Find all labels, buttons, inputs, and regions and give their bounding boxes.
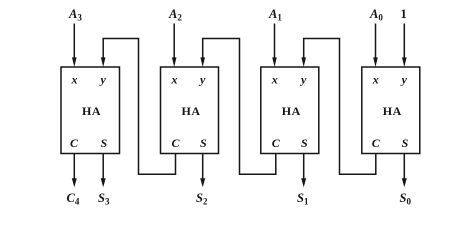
svg-text:A1: A1 bbox=[268, 7, 282, 23]
svg-text:C: C bbox=[70, 136, 79, 150]
svg-text:HA: HA bbox=[82, 104, 101, 118]
wire A0 input bbox=[375, 24, 377, 61]
arrowhead carry into HA2.y bbox=[200, 57, 205, 67]
arrowhead S0 output bbox=[402, 178, 407, 187]
svg-text:S2: S2 bbox=[196, 191, 208, 207]
svg-text:A3: A3 bbox=[68, 7, 82, 23]
half-adder HA2 box bbox=[161, 67, 219, 154]
half-adder HA3 box bbox=[261, 67, 319, 154]
svg-text:x: x bbox=[171, 73, 178, 87]
wire S0 output bbox=[403, 154, 405, 181]
svg-text:C: C bbox=[372, 136, 381, 150]
svg-text:S: S bbox=[402, 136, 409, 150]
arrowhead S3 output bbox=[101, 178, 106, 187]
wire A2 input bbox=[173, 24, 175, 61]
arrowhead S2 output bbox=[200, 178, 205, 187]
svg-text:HA: HA bbox=[383, 104, 402, 118]
svg-text:C: C bbox=[172, 136, 181, 150]
svg-text:HA: HA bbox=[182, 104, 201, 118]
arrowhead constant-1 into HA4.y bbox=[402, 57, 407, 67]
half-adder HA1 box bbox=[61, 67, 120, 154]
arrowhead A3 into HA1.x bbox=[72, 57, 77, 67]
wire A3 input bbox=[73, 24, 75, 61]
svg-text:1: 1 bbox=[401, 7, 407, 21]
arrowhead A2 into HA2.x bbox=[172, 57, 177, 67]
wire S1 output bbox=[303, 154, 305, 181]
svg-text:y: y bbox=[299, 73, 307, 87]
wire carry HA3.C to HA2.y bbox=[203, 39, 276, 175]
svg-text:y: y bbox=[400, 73, 408, 87]
half-adder HA4 box bbox=[362, 67, 420, 154]
arrowhead A0 into HA4.x bbox=[373, 57, 378, 67]
svg-text:x: x bbox=[71, 73, 78, 87]
svg-text:HA: HA bbox=[282, 104, 301, 118]
svg-text:A2: A2 bbox=[168, 7, 182, 23]
svg-text:x: x bbox=[372, 73, 379, 87]
arrowhead A1 into HA3.x bbox=[272, 57, 277, 67]
wire carry HA4.C to HA3.y bbox=[304, 39, 376, 175]
svg-text:y: y bbox=[198, 73, 206, 87]
wire S2 output bbox=[202, 154, 204, 181]
svg-text:y: y bbox=[99, 73, 107, 87]
svg-text:S: S bbox=[101, 136, 108, 150]
svg-text:S3: S3 bbox=[98, 191, 110, 207]
svg-text:x: x bbox=[271, 73, 278, 87]
arrowhead carry into HA1.y bbox=[101, 57, 106, 67]
arrowhead C4 output bbox=[72, 178, 77, 187]
wire S3 output bbox=[102, 154, 104, 181]
wire constant-1 input bbox=[403, 24, 405, 61]
svg-text:A0: A0 bbox=[369, 7, 383, 23]
arrowhead carry into HA3.y bbox=[301, 57, 306, 67]
svg-text:S0: S0 bbox=[400, 191, 412, 207]
svg-text:C: C bbox=[272, 136, 281, 150]
svg-text:S1: S1 bbox=[297, 191, 309, 207]
wire carry HA2.C to HA1.y bbox=[103, 39, 175, 175]
wire C4 output bbox=[73, 154, 75, 181]
svg-text:S: S bbox=[200, 136, 207, 150]
arrowhead S1 output bbox=[301, 178, 306, 187]
svg-text:S: S bbox=[301, 136, 308, 150]
wire A1 input bbox=[274, 24, 276, 61]
svg-text:C4: C4 bbox=[67, 191, 80, 207]
